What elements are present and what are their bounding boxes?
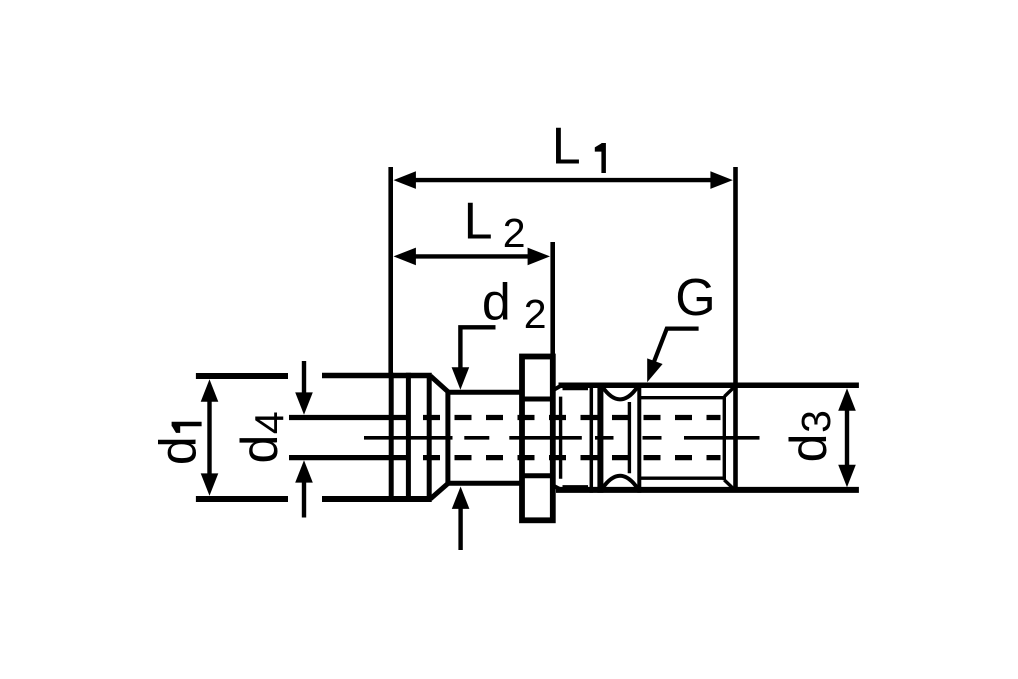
thread runout line: [723, 396, 726, 480]
chamfer edge line top: [563, 387, 589, 390]
svg-text:d: d: [231, 435, 289, 464]
L2 right extension line: [550, 242, 555, 355]
thread runout top diagonal: [724, 388, 733, 397]
label d4: [231, 411, 293, 463]
neck top outline: [446, 390, 523, 395]
d2 arrowhead: [452, 367, 470, 389]
L2 dimension line: [412, 254, 531, 258]
chamfer bottom right of flange: [553, 485, 562, 490]
d4 bottom arrowhead: [295, 460, 313, 482]
L1 right extension line: [733, 167, 738, 492]
groove left wall: [597, 383, 603, 493]
L2 right arrowhead: [528, 248, 550, 266]
thread root top line: [639, 396, 723, 399]
d4 bottom arrow shaft: [302, 482, 306, 518]
thread end line: [559, 397, 562, 479]
svg-text:d: d: [780, 433, 838, 462]
L1 dimension line: [412, 178, 714, 182]
d1 top extent bar: [196, 373, 288, 379]
bore hidden line bottom solid: [289, 455, 406, 460]
svg-text:2: 2: [503, 210, 526, 256]
head left edge: [389, 373, 394, 502]
bore hidden line top dashed: [423, 415, 721, 420]
neck start edge: [445, 391, 450, 485]
head bottom outline: [322, 496, 432, 502]
d4 top arrowhead: [295, 392, 313, 414]
d1 top arrowhead: [201, 379, 219, 401]
groove top arc: [602, 386, 638, 399]
label d3: [780, 410, 839, 462]
d3 top arrowhead: [838, 388, 856, 410]
chamfer top right of flange: [553, 385, 562, 390]
d2 bottom arrowhead: [452, 487, 470, 509]
label d1: [150, 422, 208, 465]
svg-text:L: L: [464, 193, 493, 251]
thread crest top outline: [559, 383, 859, 389]
bore hidden line bottom dashed: [423, 455, 721, 460]
chamfer edge line bottom: [563, 485, 589, 488]
d3 arrow shaft: [845, 410, 849, 465]
svg-text:3: 3: [793, 410, 839, 433]
groove right wall: [637, 383, 641, 493]
groove inner edge: [628, 402, 631, 473]
svg-text:4: 4: [246, 411, 292, 434]
svg-text:L: L: [552, 118, 581, 176]
d4 top arrow shaft: [302, 361, 306, 393]
head top outline: [322, 373, 432, 379]
d2 bottom arrow shaft: [458, 508, 462, 550]
L1 right arrowhead: [710, 171, 732, 189]
thread runout bottom diagonal: [724, 480, 733, 489]
centerline: [364, 436, 760, 440]
G arrowhead: [647, 358, 662, 382]
L2 left arrowhead: [394, 248, 416, 266]
thread crest bottom outline: [556, 487, 859, 493]
L1 left arrowhead: [394, 171, 416, 189]
G leader: [654, 329, 699, 363]
d3 bottom arrowhead: [838, 465, 856, 487]
flange facet line bottom: [521, 473, 553, 478]
L1 left extension line: [388, 167, 393, 376]
d1 arrow shaft: [207, 400, 211, 476]
flange facet line top: [521, 397, 553, 402]
head top chamfer: [431, 376, 449, 392]
neck bottom outline: [446, 481, 523, 486]
d1 bottom arrowhead: [201, 473, 219, 495]
svg-text:d: d: [150, 436, 208, 465]
cylinder edge line: [590, 383, 594, 493]
flange outline: [522, 357, 553, 521]
svg-text:2: 2: [524, 291, 547, 337]
d2 leader: [460, 327, 495, 368]
d1 bottom extent bar: [196, 496, 288, 502]
head groove edge: [406, 373, 411, 502]
svg-text:G: G: [675, 269, 715, 327]
groove bottom arc: [602, 476, 638, 489]
svg-text:d: d: [482, 274, 511, 332]
head bottom chamfer: [431, 483, 449, 499]
head right face: [427, 374, 432, 502]
bore hidden line top solid: [289, 415, 406, 420]
thread root bottom line: [639, 477, 723, 480]
